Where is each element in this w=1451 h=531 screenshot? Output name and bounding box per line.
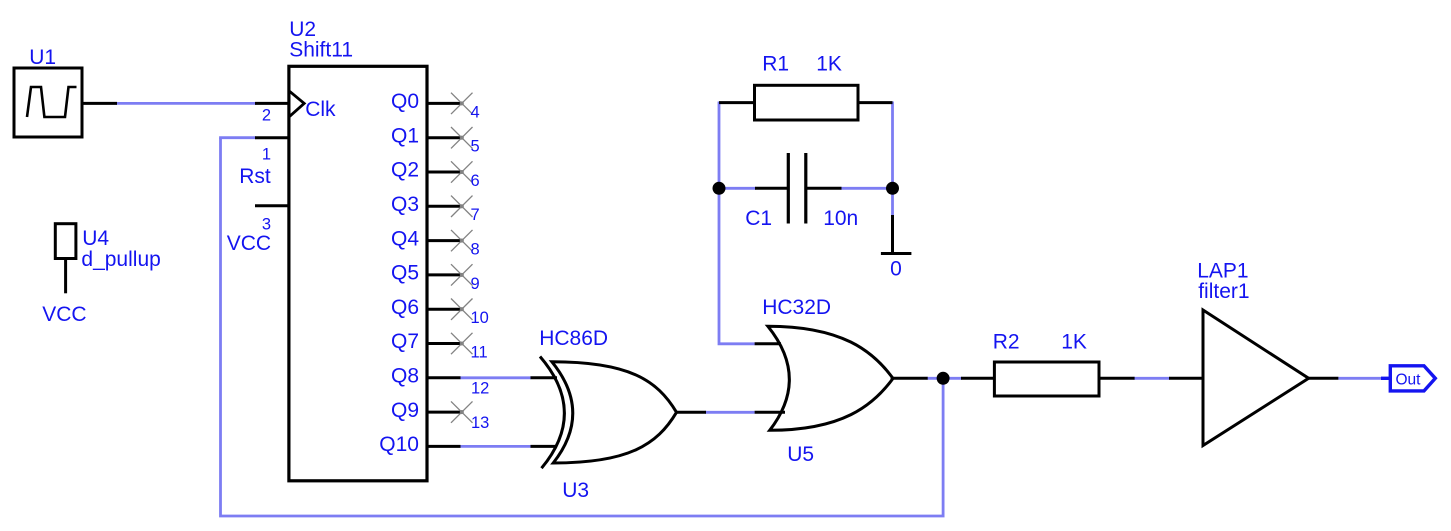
svg-text:U1: U1	[29, 46, 56, 69]
svg-text:HC32D: HC32D	[762, 296, 831, 319]
svg-text:6: 6	[471, 172, 480, 190]
svg-text:Rst: Rst	[239, 165, 271, 188]
svg-text:2: 2	[262, 107, 271, 125]
svg-text:10: 10	[471, 309, 489, 327]
svg-text:Q6: Q6	[391, 296, 419, 319]
svg-text:0: 0	[890, 258, 902, 281]
svg-text:Q5: Q5	[391, 262, 419, 285]
svg-text:VCC: VCC	[227, 232, 271, 255]
svg-text:4: 4	[471, 103, 480, 121]
svg-text:C1: C1	[745, 207, 772, 230]
svg-text:10n: 10n	[823, 207, 858, 230]
svg-text:Q2: Q2	[391, 159, 419, 182]
svg-text:Q7: Q7	[391, 330, 419, 353]
svg-text:U4: U4	[82, 227, 109, 250]
svg-text:11: 11	[471, 343, 488, 361]
svg-text:3: 3	[262, 216, 271, 234]
svg-text:Q3: Q3	[391, 193, 419, 216]
svg-text:1: 1	[262, 145, 271, 163]
svg-text:filter1: filter1	[1198, 280, 1249, 303]
svg-text:5: 5	[471, 138, 480, 156]
svg-text:Q1: Q1	[391, 124, 419, 147]
svg-text:Q8: Q8	[391, 365, 419, 388]
svg-text:R1: R1	[762, 52, 789, 75]
svg-text:d_pullup: d_pullup	[81, 248, 160, 271]
svg-text:Out: Out	[1396, 371, 1422, 388]
svg-text:Clk: Clk	[305, 98, 336, 121]
svg-text:R2: R2	[993, 331, 1020, 354]
svg-text:Q10: Q10	[379, 433, 419, 456]
svg-text:1K: 1K	[1061, 331, 1087, 354]
svg-text:U5: U5	[787, 443, 814, 466]
svg-text:Q0: Q0	[391, 90, 419, 113]
svg-text:Shift11: Shift11	[289, 39, 353, 62]
svg-text:9: 9	[471, 275, 480, 293]
svg-text:U3: U3	[562, 479, 589, 502]
svg-text:HC86D: HC86D	[539, 327, 608, 350]
svg-text:1K: 1K	[816, 52, 842, 75]
svg-text:8: 8	[471, 241, 480, 259]
svg-text:Q9: Q9	[391, 399, 419, 422]
svg-text:12: 12	[471, 380, 489, 398]
svg-text:Q4: Q4	[391, 227, 419, 250]
svg-text:7: 7	[471, 206, 480, 224]
svg-text:VCC: VCC	[42, 303, 86, 326]
svg-text:13: 13	[471, 414, 489, 432]
